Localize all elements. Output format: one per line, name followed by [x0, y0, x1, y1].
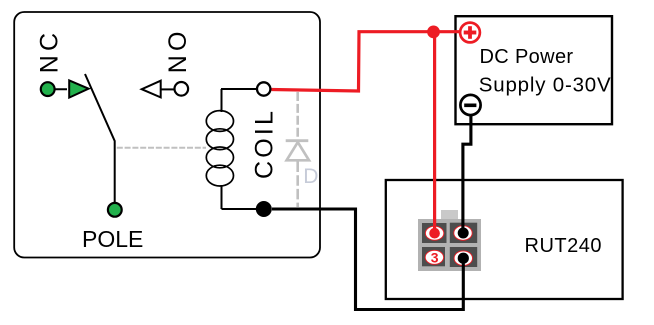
svg-text:POLE: POLE: [82, 226, 143, 252]
svg-text:RUT240: RUT240: [525, 235, 602, 257]
svg-text:Supply 0-30V: Supply 0-30V: [479, 74, 612, 97]
svg-text:DC Power: DC Power: [480, 46, 574, 68]
svg-text:COIL: COIL: [251, 108, 279, 179]
svg-text:3: 3: [431, 249, 439, 265]
svg-text:NO: NO: [164, 27, 192, 73]
svg-text:D: D: [303, 165, 318, 188]
svg-text:NC: NC: [35, 29, 63, 74]
